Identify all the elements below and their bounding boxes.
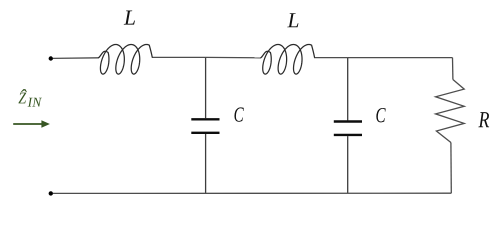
arrow: input impedance direction shaft (green) <box>13 123 43 125</box>
label C (second capacitor) <box>376 108 385 122</box>
inductor L2 <box>261 45 315 75</box>
wire: L2 to node B <box>315 57 348 59</box>
capacitor C2 top plate <box>334 120 362 122</box>
wire: capacitor C1 top stem <box>205 57 207 118</box>
label Z_IN: subscript I (green) <box>28 98 33 107</box>
capacitor C2 bottom plate <box>334 134 362 136</box>
label Z_IN: circumflex hat (green) <box>21 89 27 92</box>
resistor R zigzag <box>436 80 465 143</box>
label L (first inductor) <box>124 11 135 25</box>
arrow: input impedance direction head (green) <box>41 120 50 128</box>
label R (load resistor) <box>478 112 489 127</box>
capacitor C1 bottom plate <box>191 132 219 134</box>
node: top-left input terminal <box>49 56 53 60</box>
wire: resistor R top lead <box>452 58 454 80</box>
wire: capacitor C2 bottom stem <box>347 136 349 193</box>
wire: L1 to node A <box>152 56 205 58</box>
wire: capacitor C2 top stem <box>347 58 349 121</box>
label L (second inductor) <box>287 13 298 27</box>
wire: resistor R bottom lead <box>450 143 452 194</box>
label C (first capacitor) <box>234 107 243 121</box>
wire: bottom rail <box>53 192 451 194</box>
capacitor C1 top plate <box>191 118 219 120</box>
label Z_IN: Z glyph (green) <box>18 93 26 104</box>
wire: top rail, input terminal to inductor L1 <box>53 57 99 60</box>
inductor L1 <box>99 45 153 75</box>
label Z_IN: subscript N (green) <box>32 98 42 107</box>
node: bottom-left input terminal <box>49 191 53 195</box>
wire: node A to inductor L2 <box>206 56 261 58</box>
wire: node B to top-right corner <box>348 57 453 59</box>
wire: capacitor C1 bottom stem <box>205 134 207 193</box>
